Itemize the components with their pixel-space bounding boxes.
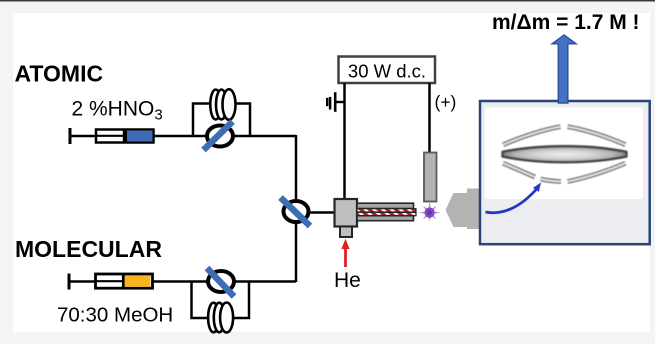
orbitrap outer electrode upper-right [568, 127, 626, 145]
coil C2 [208, 303, 233, 333]
svg-text:(+): (+) [435, 92, 457, 112]
white panel [485, 108, 643, 200]
svg-text:30 W d.c.: 30 W d.c. [348, 61, 426, 82]
He inlet block [340, 227, 352, 238]
skimmer cone [446, 189, 482, 230]
syringe S2 (70:30 MeOH) [69, 274, 153, 290]
big blue output arrow [552, 35, 576, 103]
bypass loop L1 (upper) [193, 104, 250, 137]
torch body block [335, 199, 358, 227]
svg-text:He: He [334, 269, 361, 292]
torch tube lower wall [357, 216, 414, 221]
ground symbol [327, 92, 345, 112]
bypass loop L2 (lower) [192, 282, 250, 319]
valve V2 [207, 268, 234, 297]
syringe S1 (2% HNO3) [70, 128, 154, 144]
orbitrap central spindle electrode [503, 146, 627, 162]
He arrow (red) [341, 239, 349, 267]
valve V1 [204, 122, 234, 151]
wire: box to torch block (cathode lead) [343, 83, 346, 200]
orbitrap outer electrode lower-left [503, 163, 535, 177]
wire: valve V3 to torch block [296, 211, 336, 214]
svg-text:70:30 MeOH: 70:30 MeOH [57, 304, 173, 327]
svg-text:MOLECULAR: MOLECULAR [15, 236, 162, 262]
anode electrode bar [424, 153, 437, 202]
orbitrap outer electrode upper-left [503, 127, 561, 145]
top window edge line [0, 0, 655, 2]
coil C1 [210, 89, 235, 120]
torch tube upper wall [357, 203, 414, 208]
wire: upper main line syringe1 to vertical [153, 135, 296, 138]
wire: lower main line syringe2 to vertical [152, 280, 296, 283]
svg-text:2 %HNO3: 2 %HNO3 [72, 98, 163, 124]
torch capillary (hatched) [357, 209, 416, 216]
capillary center line [357, 211, 416, 213]
orbitrap lower middle segment [541, 179, 562, 182]
orbitrap outer electrode lower-right [568, 163, 626, 181]
wire: box to anode electrode [428, 83, 431, 153]
svg-text:m/Δm = 1.7 M !: m/Δm = 1.7 M ! [492, 11, 640, 34]
valve V3 (selector) [281, 198, 311, 227]
power supply box 30 W d.c. [339, 57, 436, 84]
plasma star [419, 201, 441, 221]
wire: vertical junction line [295, 135, 298, 282]
analyzer box [480, 101, 650, 244]
svg-text:ATOMIC: ATOMIC [15, 61, 104, 87]
ion injection arrow (blue curved) [486, 183, 542, 213]
